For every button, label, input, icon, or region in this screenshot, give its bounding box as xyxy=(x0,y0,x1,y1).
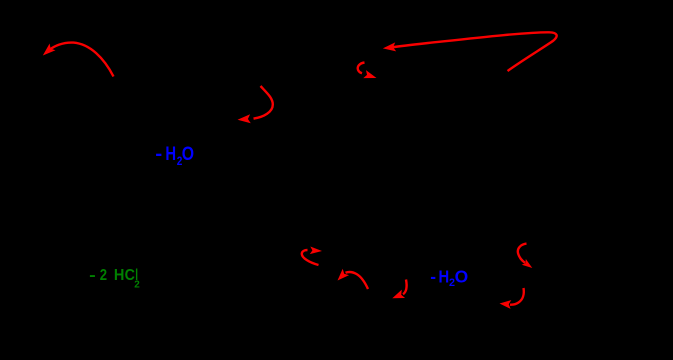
curved arrow A top-left xyxy=(43,43,114,77)
svg-text:O: O xyxy=(182,144,194,165)
curved arrow B hook to epoxide xyxy=(238,86,273,123)
label -2 HCl xyxy=(89,267,140,291)
svg-text:H: H xyxy=(165,144,176,165)
svg-text:2: 2 xyxy=(134,280,140,291)
svg-text:H: H xyxy=(114,267,125,284)
svg-text:-: - xyxy=(430,266,436,286)
svg-text:H: H xyxy=(439,266,450,286)
curved arrow I arc bottom-right lower xyxy=(500,288,524,309)
curved arrow G short hook bottom-middle xyxy=(392,280,406,299)
curved arrow E small c bottom-middle-left xyxy=(302,247,322,266)
svg-text:-: - xyxy=(155,144,162,165)
svg-text:-: - xyxy=(89,267,96,284)
curved arrow F arc bottom-middle xyxy=(338,269,369,289)
svg-text:O: O xyxy=(455,266,469,286)
svg-text:2: 2 xyxy=(100,267,107,284)
label -H2O upper xyxy=(155,144,194,168)
curved arrow D large loop top-right xyxy=(383,32,557,71)
curved arrow C small hook at carbonyl xyxy=(358,63,377,79)
label -H2O lower xyxy=(430,266,468,289)
curved arrow H c-hook bottom-right upper xyxy=(518,244,532,268)
